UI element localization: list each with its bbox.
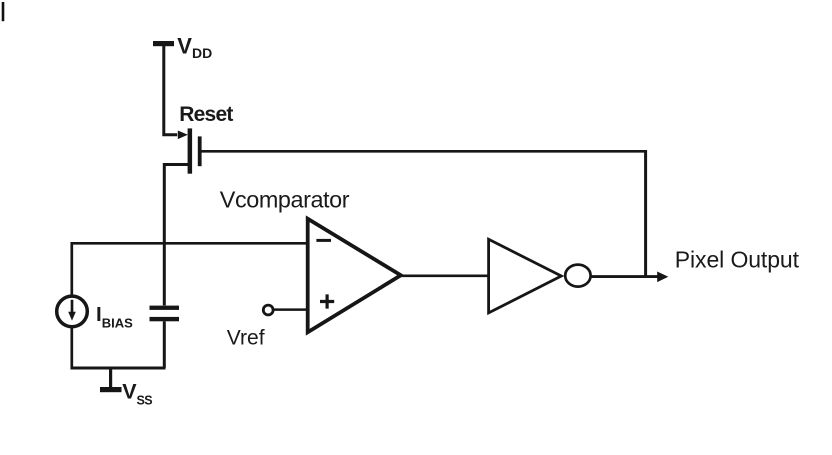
- current source IBIAS circle: [57, 296, 88, 327]
- current source arrow: [71, 300, 74, 313]
- op-amp comparator triangle: [308, 219, 401, 333]
- transistor Reset channel bar: [188, 128, 193, 173]
- svg-text:Vref: Vref: [227, 326, 265, 349]
- inverter bubble: [565, 265, 590, 287]
- wire VDD to transistor drain: [164, 46, 177, 135]
- wire feedback vertical: [644, 150, 647, 277]
- comparator plus sign: [320, 294, 334, 308]
- svg-text:VSS: VSS: [122, 380, 152, 408]
- wire capacitor to bottom rail: [163, 321, 166, 368]
- wire source to node: [164, 163, 189, 166]
- svg-text:VDD: VDD: [177, 33, 212, 61]
- svg-text:IBIAS: IBIAS: [96, 303, 133, 330]
- svg-text:Reset: Reset: [179, 103, 233, 126]
- wire left branch upper: [70, 242, 73, 295]
- ground VSS stub: [109, 368, 112, 387]
- capacitor top plate: [150, 306, 180, 310]
- wire left branch lower: [70, 328, 73, 370]
- svg-text:Vcomparator: Vcomparator: [220, 187, 350, 213]
- transistor Reset gate bar: [198, 136, 202, 166]
- inverter triangle: [489, 239, 562, 313]
- wire node column: [163, 163, 166, 305]
- drain arrowhead: [178, 131, 188, 140]
- ground VSS bar: [100, 387, 122, 392]
- capacitor bottom plate: [150, 317, 180, 321]
- Vref terminal circle: [263, 305, 273, 315]
- wire comparator output to inverter: [401, 274, 489, 277]
- stray mark top-left: [2, 2, 5, 21]
- wire bottom rail: [71, 367, 166, 370]
- wire inverter output: [591, 275, 658, 278]
- wire gate to feedback: [201, 150, 646, 153]
- power VDD symbol: [153, 41, 174, 46]
- comparator minus sign: [316, 239, 331, 242]
- svg-text:Pixel Output: Pixel Output: [675, 247, 800, 273]
- wire node horizontal to comparator minus: [72, 242, 307, 245]
- wire Vref to comparator plus: [274, 308, 307, 311]
- output arrowhead: [657, 272, 668, 283]
